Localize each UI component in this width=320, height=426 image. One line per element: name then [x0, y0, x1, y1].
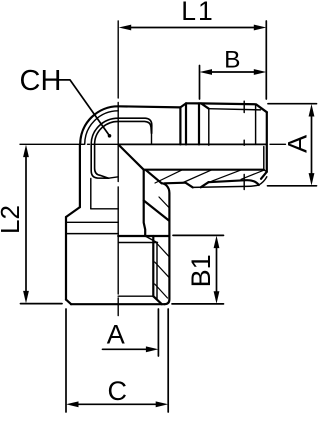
end chamfer vertical — [255, 104, 257, 144]
dimension L2 — [21, 150, 63, 304]
hook tail to centerline — [109, 177, 119, 178]
bore wall of male branch — [144, 169, 264, 171]
vertical centerline of socket axis — [117, 21, 119, 316]
thread bottom line — [118, 295, 153, 297]
thread second line — [118, 242, 157, 244]
svg-text:CH: CH — [20, 65, 62, 97]
male thread root bottom — [209, 180, 259, 185]
male thread crest top — [186, 103, 267, 112]
thread runout rise — [201, 182, 209, 187]
male end lower chamfer — [261, 172, 267, 179]
hex chamfer hook outer edge — [91, 118, 152, 178]
svg-text:B: B — [224, 47, 240, 74]
hook tail to body line — [151, 133, 153, 144]
thread root start vertical — [208, 109, 210, 146]
socket bottom edge — [71, 303, 165, 305]
socket outer right wall — [162, 183, 170, 304]
svg-text:B1: B1 — [186, 254, 216, 287]
hatch male band — [155, 170, 265, 183]
male thread start chamfer — [201, 103, 209, 108]
female thread crest — [152, 236, 154, 296]
svg-text:L2: L2 — [0, 205, 25, 234]
hex chamfer hook inner edge — [95, 121, 152, 178]
socket bottom left chamfer — [66, 300, 71, 305]
thread runout to end — [259, 177, 267, 185]
thread start vertical — [198, 103, 200, 144]
socket bore right wall — [144, 170, 146, 236]
socket mouth countersink — [153, 296, 162, 304]
collar bottom edge — [165, 182, 186, 185]
inner cone edge — [118, 144, 144, 169]
elbow left edge — [79, 144, 81, 207]
internal shoulder left — [91, 208, 118, 210]
male thread crest bottom — [193, 185, 259, 187]
inner bend arc — [85, 111, 119, 145]
outer bend arc — [80, 106, 118, 144]
elbow top edge — [118, 106, 180, 107]
thread runout dip — [186, 183, 193, 188]
socket left wall — [65, 217, 67, 300]
hex cone line left — [66, 221, 118, 223]
thread top line right half — [118, 235, 169, 237]
internal cone edge — [144, 201, 169, 221]
horizontal centerline of male axis — [20, 143, 286, 145]
svg-text:A: A — [282, 135, 312, 153]
leader line CH — [57, 80, 110, 136]
gauge plane tick upper — [243, 101, 245, 112]
female thread root — [156, 243, 158, 300]
svg-text:A: A — [107, 320, 125, 350]
bore left wall — [90, 179, 92, 209]
dimension C — [66, 309, 168, 412]
dimension B — [200, 66, 262, 100]
thread countersink top — [145, 236, 157, 243]
bore end vertical at face — [264, 147, 267, 172]
dimension B1 — [172, 235, 224, 304]
male thread root top — [209, 109, 261, 110]
gauge plane tick lower — [243, 175, 245, 190]
svg-text:C: C — [108, 376, 128, 406]
dimension L1 — [124, 21, 266, 99]
gauge plane tick middle — [243, 140, 245, 145]
outer cone edge — [146, 170, 162, 183]
collar left vertical — [179, 107, 181, 144]
collar right vertical — [185, 103, 187, 144]
male end face — [266, 112, 268, 172]
dimension A bottom — [103, 309, 159, 356]
hatch socket band — [155, 197, 170, 298]
hex bottom line left — [66, 233, 118, 235]
dimension A right — [268, 104, 317, 186]
collar chamfer — [180, 103, 186, 107]
section edge on male axis — [118, 143, 267, 145]
socket top left chamfer — [66, 207, 80, 217]
svg-text:L1: L1 — [181, 0, 214, 26]
